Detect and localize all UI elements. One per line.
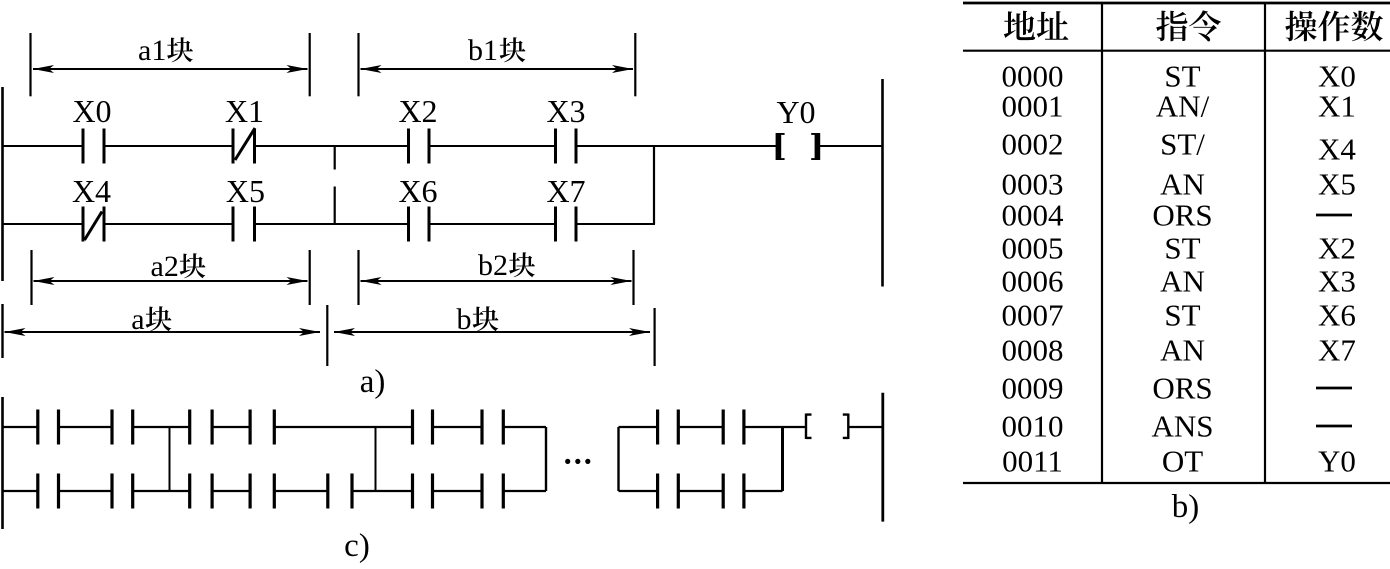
svg-text:0001: 0001	[1002, 89, 1064, 124]
svg-text:0003: 0003	[1002, 167, 1064, 202]
junction rung1-rung2	[653, 146, 655, 224]
junction c 2	[375, 427, 377, 491]
junction c opening right group	[617, 427, 619, 491]
dim tick b1 left	[357, 33, 359, 96]
table header underline	[963, 50, 1390, 52]
table top border	[963, 2, 1390, 5]
ellipsis dots	[565, 459, 570, 464]
svg-text:ORS: ORS	[1152, 198, 1212, 233]
contact X7	[556, 207, 577, 242]
right power rail (c)	[881, 393, 884, 522]
svg-text:ST: ST	[1164, 298, 1200, 333]
svg-text:a1: a1	[138, 34, 166, 67]
svg-text:a2: a2	[151, 250, 179, 283]
output coil (c)	[806, 414, 812, 440]
svg-text:X7: X7	[1318, 333, 1356, 368]
dim arrow a block	[5, 331, 321, 333]
table column line 1	[1101, 3, 1103, 483]
dim arrow b1	[361, 68, 634, 70]
wire rung1	[2, 145, 883, 147]
contacts c right bottom	[658, 474, 744, 509]
svg-text:X6: X6	[1318, 298, 1356, 333]
svg-text:Y0: Y0	[776, 94, 815, 130]
contact X4 (NC)	[83, 207, 104, 242]
slash X1	[235, 128, 255, 160]
svg-text:0011: 0011	[1002, 444, 1063, 479]
svg-text:ST/: ST/	[1160, 127, 1205, 162]
slash X4	[85, 212, 103, 241]
svg-text:X4: X4	[1318, 132, 1356, 167]
dim tick a left	[1, 304, 3, 358]
dim tick a1 left	[29, 33, 31, 96]
dim arrow b2	[361, 280, 632, 282]
svg-text:b2: b2	[478, 249, 508, 282]
contact X6	[409, 207, 430, 242]
junction c closing	[545, 427, 547, 491]
svg-text:X2: X2	[1318, 231, 1356, 266]
dim tick a2 left	[30, 250, 32, 305]
svg-text:Y0: Y0	[1318, 444, 1356, 479]
block divider dashed	[334, 146, 336, 224]
svg-text:0005: 0005	[1002, 231, 1064, 266]
svg-text:X5: X5	[226, 173, 265, 209]
left power rail (c)	[1, 397, 4, 529]
dim arrow b block	[334, 331, 650, 333]
contact X0	[83, 129, 104, 164]
contacts c right top	[658, 410, 744, 445]
dim tick a2 right	[309, 250, 311, 305]
svg-text:X1: X1	[1318, 89, 1356, 124]
svg-text:0007: 0007	[1002, 298, 1064, 333]
dim tick b2 left	[357, 250, 359, 305]
svg-text:a): a)	[360, 364, 386, 400]
dim tick a1 right	[309, 33, 311, 96]
svg-text:OT: OT	[1162, 444, 1203, 479]
svg-text:X4: X4	[72, 173, 111, 209]
svg-text:X2: X2	[398, 93, 437, 129]
svg-text:0004: 0004	[1002, 198, 1065, 233]
wire rung2	[2, 223, 655, 225]
dim tick b right	[653, 308, 655, 366]
svg-text:a: a	[131, 303, 144, 336]
svg-text:AN: AN	[1160, 333, 1205, 368]
svg-text:AN: AN	[1160, 167, 1205, 202]
wire coil to rail (c)	[850, 426, 883, 428]
svg-text:ORS: ORS	[1152, 371, 1212, 406]
header instruction	[1156, 11, 1187, 42]
dim tick b1 right	[634, 33, 636, 96]
dim arrow a2	[34, 280, 308, 282]
contacts c bottom rung	[38, 474, 504, 509]
svg-text:ANS: ANS	[1151, 409, 1213, 444]
svg-text:X7: X7	[546, 173, 585, 209]
wire c right group bottom	[619, 490, 783, 492]
svg-text:X1: X1	[225, 93, 264, 129]
svg-text:AN/: AN/	[1156, 89, 1210, 124]
svg-text:b: b	[457, 303, 472, 336]
svg-text:X5: X5	[1318, 167, 1356, 202]
svg-text:0006: 0006	[1002, 264, 1064, 299]
svg-text:ST: ST	[1164, 231, 1200, 266]
dim tick a/b middle	[326, 305, 328, 366]
svg-text:X3: X3	[1318, 264, 1356, 299]
svg-text:0008: 0008	[1002, 333, 1064, 368]
svg-text:AN: AN	[1160, 264, 1205, 299]
junction c right closing	[781, 427, 784, 491]
svg-text:0010: 0010	[1002, 409, 1064, 444]
table bottom border	[963, 482, 1390, 484]
svg-text:X6: X6	[398, 173, 437, 209]
dim tick b2 right	[632, 250, 634, 305]
dim arrow a1	[33, 68, 308, 70]
wire c bottom rung	[2, 490, 546, 492]
wire c right group top	[619, 426, 807, 428]
svg-text:0002: 0002	[1002, 127, 1064, 162]
contacts c top rung	[38, 410, 504, 445]
svg-text:0009: 0009	[1002, 371, 1064, 406]
right power rail (a)	[881, 79, 884, 287]
contact X2	[409, 129, 430, 164]
svg-text:X0: X0	[72, 93, 111, 129]
contact X1 (NC)	[233, 129, 255, 164]
svg-text:b): b)	[1172, 489, 1200, 525]
contact X3	[556, 129, 577, 164]
header operand	[1285, 11, 1316, 42]
table column line 2	[1264, 3, 1266, 483]
output coil Y0	[776, 133, 785, 160]
contact X5	[233, 207, 255, 242]
svg-text:X3: X3	[546, 93, 585, 129]
junction c 1	[169, 427, 171, 491]
header address	[1004, 11, 1035, 40]
wire c top rung	[2, 426, 546, 428]
left power rail (a)	[1, 87, 4, 281]
svg-text:c): c)	[344, 528, 370, 564]
svg-text:b1: b1	[468, 34, 498, 67]
